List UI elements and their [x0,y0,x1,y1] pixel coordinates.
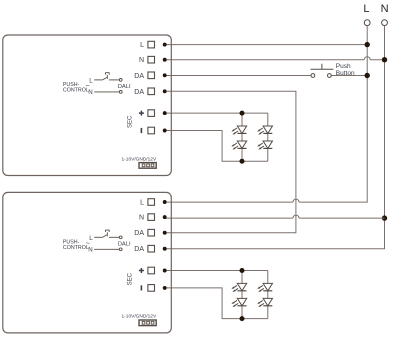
svg-text:L: L [363,3,369,15]
svg-text:SEC: SEC [127,115,133,128]
svg-text:SEC: SEC [127,272,133,285]
svg-text:DA: DA [134,89,144,96]
svg-text:L: L [89,235,93,242]
LED driver U2 (enclosure) [3,192,172,333]
svg-text:N: N [88,247,92,254]
svg-text:N: N [88,89,92,96]
terminal SEC- of driver U2 (SEC-) [141,285,166,292]
LED D8 [257,298,272,307]
terminal SEC- of driver U1 (SEC-) [141,127,166,134]
wire: LED array bottom rail [242,160,268,162]
LED D2 [231,141,246,150]
svg-text:Button: Button [336,70,355,77]
svg-text:DA: DA [134,246,144,253]
LED D3 [257,126,272,135]
wire: LED array bottom rail [242,318,268,320]
terminal N of driver U2 (N) [139,214,167,222]
wire: LED array return to SEC- [165,131,242,162]
junction: U1 N wire / N bus [382,57,387,62]
svg-text:1-10V/GND/12V: 1-10V/GND/12V [122,314,157,320]
junction: LED top rail [240,268,245,273]
push button label [336,63,355,77]
LED D4 [257,141,272,150]
wire: U1 DA2 terminal down to U2 DA1 terminal (DALI bus) [165,91,296,232]
terminal N of driver U1 (N) [139,56,167,64]
svg-text:1-10V/GND/12V: 1-10V/GND/12V [122,156,157,162]
wire: L bus (down from L, corner into U2 L terminal, hop over DALI bus) [165,26,368,203]
LED D6 [231,298,246,307]
terminal DA of driver U1 (DA2) [134,88,166,96]
wire: LED array return to SEC- [165,288,242,319]
push button S1 [311,64,334,78]
terminal DA of driver U2 (DA1) [134,229,166,237]
svg-text:L: L [140,42,144,49]
svg-text:L: L [89,77,93,84]
terminal L of driver U2 (L) [140,199,167,207]
legend N wire of U2 [94,248,122,251]
LED D5 [231,283,246,292]
junction: push button / L bus [365,73,370,78]
1-10V/GND/12V connector icon of U1 [139,163,156,169]
svg-text:N: N [139,215,144,222]
wire: U1 SEC+ to LED array top rail [165,112,268,114]
legend mini push-button switch of U1 [94,72,122,81]
svg-text:N: N [381,3,389,15]
wire: U2 SEC+ to LED array top rail [165,270,268,272]
junction: LED bottom rail [240,316,245,321]
1-10V/GND/12V connector icon of U2 [139,320,156,326]
mains terminal N (circle) [382,20,388,26]
svg-text:N: N [139,57,144,64]
wire: U2 N terminal to N bus (hops over DALI bus) [165,215,385,218]
LED D1 [231,126,246,135]
junction: U1 L wire / L bus [365,42,370,47]
LED D7 [257,283,272,292]
wire: left LED string drop [241,271,243,319]
junction: LED top rail [240,111,245,116]
wire: push button to L bus [331,75,367,77]
mains terminal L (circle) [364,20,370,26]
wire: right LED string drop [267,113,269,161]
legend N wire of U1 [94,91,122,94]
svg-text:DALI: DALI [118,84,131,90]
svg-text:DALI: DALI [118,241,131,247]
svg-text:DA: DA [134,73,144,80]
junction: LED bottom rail [240,159,245,164]
wire: left LED string drop [241,113,243,161]
svg-text:Push: Push [336,63,351,70]
terminal L of driver U1 (L) [140,41,167,49]
terminal SEC+ of driver U2 (SEC+) [139,267,167,274]
wire: right LED string drop [267,271,269,319]
terminal DA of driver U1 (DA1) [134,72,166,80]
wire: U1 DA1 terminal to push button [165,75,311,77]
terminal DA of driver U2 (DA2) [134,245,166,253]
legend mini push-button switch of U2 [94,230,122,239]
LED driver U1 (enclosure) [3,35,172,176]
wire: U1 N terminal to N bus (hops over L bus) [165,57,385,60]
svg-text:L: L [140,200,144,207]
terminal SEC+ of driver U1 (SEC+) [139,110,167,117]
wire: U1 L terminal to L bus [165,44,368,46]
svg-text:DA: DA [134,230,144,237]
wire: N bus (down from N, corner into U2 DA2 terminal) [165,26,385,249]
junction: U2 N wire / N bus [382,215,387,220]
